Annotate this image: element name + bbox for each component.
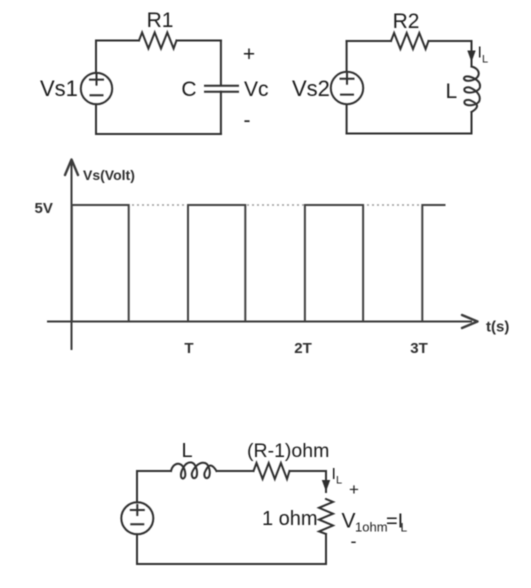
label Vc — [244, 78, 269, 101]
svg-text:1ohm: 1ohm — [355, 520, 388, 535]
wire: circuit2 left edge upper — [346, 41, 348, 72]
wire: circuit2 right edge upper with arrow shaft — [471, 41, 473, 67]
wire: circuit1 top-left segment — [96, 40, 139, 42]
svg-text:R2: R2 — [393, 10, 420, 33]
wire: circuit3 right edge upper with arrow shaft — [325, 471, 327, 492]
wire: circuit3 bottom edge — [137, 563, 326, 565]
label V1ohm=IL — [342, 510, 408, 535]
wire: circuit1 left edge lower — [95, 104, 97, 134]
label Vs(Volt) — [83, 167, 135, 183]
voltage source (circuit3) — [121, 502, 153, 534]
label R1 — [147, 9, 174, 32]
voltage source Vs2 — [331, 72, 363, 104]
label Vs1 — [40, 76, 78, 101]
label minus (Vc) — [244, 109, 251, 132]
wire: circuit1 left edge upper — [95, 41, 97, 73]
svg-text:L: L — [482, 54, 488, 66]
dotted 5V reference line — [72, 204, 445, 206]
resistor (R-1)ohm — [254, 463, 290, 479]
svg-text:+: + — [349, 480, 359, 499]
wire: circuit3 top-left segment — [137, 470, 171, 472]
inductor L (circuit2) — [464, 67, 480, 113]
graph y-axis — [71, 160, 73, 350]
label L (circuit2) — [446, 80, 458, 103]
label 1 ohm — [262, 508, 318, 530]
wire: circuit3 right edge lower — [325, 534, 327, 564]
svg-text:Vs(Volt): Vs(Volt) — [83, 167, 135, 183]
svg-text:L: L — [446, 80, 458, 103]
svg-text:-: - — [351, 531, 357, 551]
svg-text:-: - — [244, 109, 251, 132]
svg-text:+: + — [243, 43, 255, 66]
wire: circuit3 top-right segment — [290, 470, 327, 472]
svg-text:Vs2: Vs2 — [292, 76, 330, 101]
wire: circuit2 right edge lower — [471, 112, 473, 134]
square wave pulse 3 — [305, 205, 363, 322]
svg-text:V: V — [342, 510, 356, 533]
wire: circuit1 top-right segment — [177, 40, 221, 42]
svg-text:3T: 3T — [410, 340, 428, 357]
square wave pulse 4 (partial) — [422, 205, 445, 322]
resistor R1 — [139, 33, 177, 49]
resistor R2 — [391, 33, 429, 49]
svg-text:L: L — [181, 440, 192, 462]
wire: circuit2 top-right segment — [429, 40, 472, 42]
svg-text:L: L — [336, 475, 342, 487]
label plus (V1ohm) — [349, 480, 359, 499]
label t(s) — [486, 319, 509, 336]
graph x-axis — [47, 321, 472, 323]
label (R-1)ohm — [247, 440, 329, 462]
current arrow IL (circuit2) — [467, 51, 475, 63]
wire: circuit2 bottom edge — [347, 133, 472, 135]
capacitor C — [205, 86, 238, 92]
label 5V — [35, 200, 53, 217]
label IL (circuit3) — [332, 466, 343, 487]
square wave pulse 1 — [72, 205, 129, 322]
wire: circuit2 top-left segment — [347, 40, 391, 42]
label IL (circuit2) — [478, 45, 489, 66]
label C — [181, 78, 196, 101]
graph y-axis arrowhead — [65, 160, 78, 176]
label minus (V1ohm) — [351, 531, 357, 551]
wire: circuit1 right edge lower — [220, 92, 222, 134]
voltage source Vs1 — [81, 73, 112, 104]
svg-text:(R-1)ohm: (R-1)ohm — [247, 440, 329, 462]
label Vs2 — [292, 76, 330, 101]
current arrow IL (circuit3) — [322, 480, 330, 492]
resistor 1 ohm — [319, 499, 333, 534]
square wave pulse 2 — [188, 205, 245, 322]
inductor L (circuit3) — [171, 462, 217, 478]
svg-text:L: L — [401, 521, 408, 535]
label plus (Vc) — [243, 43, 255, 66]
wire: circuit1 right edge upper — [220, 41, 222, 86]
wire: circuit3 top-middle segment — [217, 470, 254, 472]
svg-text:t(s): t(s) — [486, 319, 509, 336]
label 3T — [410, 340, 428, 357]
svg-text:R1: R1 — [147, 9, 174, 32]
label T — [184, 340, 193, 357]
label L (circuit3) — [181, 440, 192, 462]
svg-text:5V: 5V — [35, 200, 53, 217]
wire: circuit1 bottom edge — [96, 133, 221, 135]
svg-text:T: T — [184, 340, 193, 357]
wire: circuit2 left edge lower — [346, 105, 348, 134]
label 2T — [294, 340, 312, 357]
svg-text:C: C — [181, 78, 196, 101]
wire: circuit3 left edge lower — [136, 534, 138, 564]
svg-text:Vs1: Vs1 — [40, 76, 78, 101]
graph x-axis arrowhead — [462, 315, 478, 328]
svg-text:Vc: Vc — [244, 78, 269, 101]
wire: circuit3 left edge upper — [136, 471, 138, 502]
svg-text:1 ohm: 1 ohm — [262, 508, 318, 530]
label R2 — [393, 10, 420, 33]
svg-text:2T: 2T — [294, 340, 312, 357]
